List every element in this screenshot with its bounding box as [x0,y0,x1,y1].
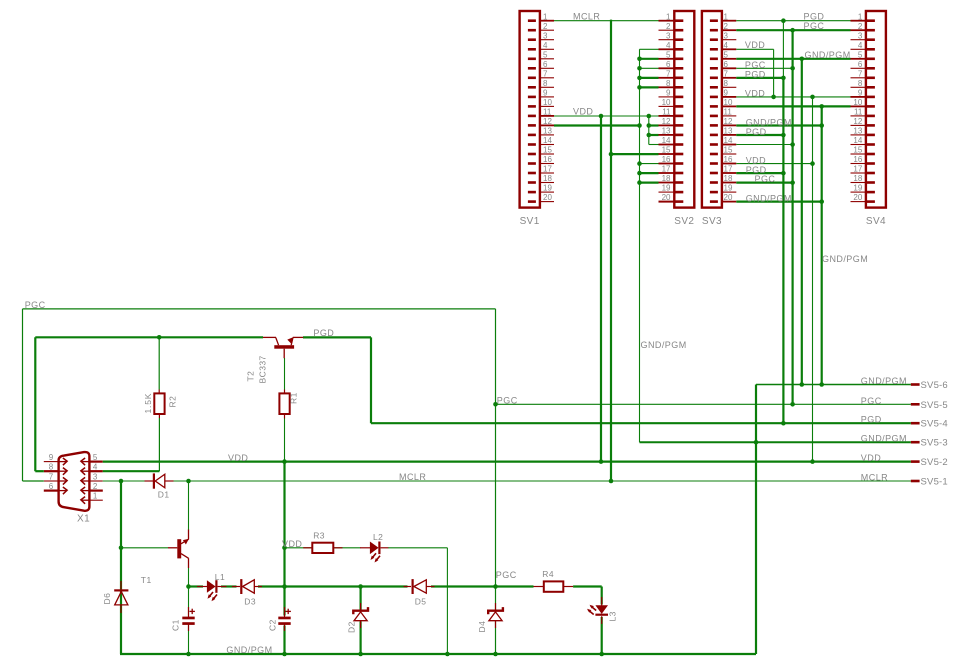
svg-text:T1: T1 [141,575,152,585]
svg-text:12: 12 [543,117,552,126]
svg-text:R2: R2 [168,396,178,408]
svg-text:MCLR: MCLR [861,472,888,482]
svg-text:VDD: VDD [745,88,765,98]
svg-text:16: 16 [724,155,733,164]
wire PGD: SV3 pin17 [736,172,783,174]
svg-text:GND/PGM: GND/PGM [226,645,272,655]
junction PGD pin1 row [781,18,786,23]
junction GND/PGM SV5-6 row [800,382,805,387]
junction row586 at T1 collector / C1 [186,584,191,589]
wire GND/PGM: SV2 pin5 [640,58,659,60]
wire L3 column [601,587,603,605]
connector SV5-6 [911,380,948,391]
wire row586: L1 cathode to D3 [221,585,237,587]
svg-text:GND/PGM: GND/PGM [861,376,907,386]
svg-text:19: 19 [662,184,671,193]
wire VDD: SV3 pin4 over to vertical [736,48,773,50]
junction row586 at C2 column [282,584,287,589]
wire PGC: SV3 pin6 [736,67,792,69]
transistor T2 BC337 [246,337,304,383]
svg-text:D5: D5 [415,596,427,606]
wire T2 collector net: X1 pin8 stub [35,470,44,472]
junction at R2 top [157,335,162,340]
svg-text:9: 9 [666,89,671,98]
svg-text:10: 10 [543,98,552,107]
svg-text:C1: C1 [171,619,181,631]
svg-text:D4: D4 [477,621,487,633]
svg-text:19: 19 [724,184,733,193]
wire PGC: SV3 pin18 [736,182,792,184]
svg-text:1: 1 [666,12,671,21]
junction PGC SV3 pin14 [790,142,795,147]
connector SV4 20-pin header [851,11,887,227]
wire GND/PGM: long vertical to bottom rail [755,385,757,655]
svg-text:VDD: VDD [228,453,248,463]
svg-text:2: 2 [724,22,729,31]
svg-text:12: 12 [853,117,862,126]
wire PGC: SV3 pin2 to SV4 pin2 [736,29,850,31]
wire row586: T1 collector junction to L1 [188,568,190,587]
svg-text:7: 7 [858,69,863,78]
LED L1 [197,572,227,601]
connector SV5-2 [911,457,948,468]
wire row586: R4 right to L3 corner [573,585,602,587]
wire MCLR: D1 cathode to SV5-1 [168,480,911,482]
svg-text:GND/PGM: GND/PGM [861,434,907,444]
junction PGD SV3 pin13 [781,133,786,138]
wire GND/PGM: vertical SV2 side [639,49,641,442]
wire GND/PGM: SV3 pin5 to SV4 pin5 [736,58,850,60]
svg-text:1: 1 [93,492,98,501]
capacitor C1 [171,607,195,631]
wire VDD: SV1 pin11 to SV2 pin11 [554,115,659,117]
svg-text:8: 8 [724,79,729,88]
svg-text:16: 16 [662,155,671,164]
wire R3 to L2 row [285,547,312,549]
junction VDD at SV3 pin16 [810,161,815,166]
svg-text:12: 12 [662,117,671,126]
svg-text:MCLR: MCLR [399,472,426,482]
wire VDD: SV2 pins 11-14 bracket [648,116,650,145]
svg-text:11: 11 [724,108,733,117]
wire GND/PGM: SV2 pin18 [640,182,659,184]
svg-text:2: 2 [543,22,548,31]
wire GND/PGM: SV2 pin17 [640,172,659,174]
diode D6 zener [102,581,128,613]
svg-text:15: 15 [543,146,552,155]
wire PGD: SV5-4 row [371,422,911,424]
wire T2 base to R1 [284,358,286,390]
svg-text:D6: D6 [102,593,112,605]
wire L2 cathode to corner [388,547,447,549]
svg-text:6: 6 [666,60,671,69]
wire C2 column [283,462,285,616]
svg-text:GND/PGM: GND/PGM [822,254,868,264]
svg-text:17: 17 [662,165,671,174]
wire PGC: vertical x792 [791,30,793,404]
wire PGC: SV3 pin14 [736,144,792,146]
resistor R3 [303,531,342,553]
svg-text:8: 8 [858,79,863,88]
svg-text:9: 9 [724,89,729,98]
junction VDD pin9 row [771,95,776,100]
wire MCLR: stub to SV2 pin15 [611,153,659,155]
svg-text:8: 8 [49,463,54,472]
diode D5 [404,579,435,606]
svg-text:PGD: PGD [313,328,334,338]
svg-text:14: 14 [853,136,862,145]
wire D2 column [360,587,362,610]
svg-text:PGD: PGD [861,415,882,425]
wire MCLR: T1 emitter up to MCLR row [188,481,190,530]
wire PGC: top horizontal [23,308,496,310]
svg-text:VDD: VDD [282,539,302,549]
svg-text:3: 3 [858,31,863,40]
svg-text:X1: X1 [77,514,90,525]
svg-text:5: 5 [666,50,671,59]
svg-text:3: 3 [93,472,98,481]
svg-text:1: 1 [724,12,729,21]
svg-text:20: 20 [543,193,552,202]
LED L2 [360,532,388,563]
wire MCLR: SV1 pin1 to SV2 pin1 [554,20,659,22]
svg-text:SV3: SV3 [702,216,722,227]
svg-text:D3: D3 [244,596,256,606]
wire PGD: SV3 pin1 to SV4 pin1 [736,20,850,22]
wire GND/PGM: SV2 pin8 [640,86,659,88]
svg-text:20: 20 [853,193,862,202]
svg-text:13: 13 [853,127,862,136]
wire GND/PGM: SV1 pin12 row [554,124,640,126]
svg-text:17: 17 [853,165,862,174]
svg-text:GND/PGM: GND/PGM [746,117,792,127]
junction GND/PGM SV2 pins 16-18 [637,161,642,166]
wire L2 corner down to rail [446,548,448,654]
connector SV5-1 [911,477,948,488]
svg-text:PGC: PGC [755,174,776,184]
wire T2 collector net: left vertical [34,337,36,471]
diode D4 zener [477,603,503,633]
svg-text:SV5-2: SV5-2 [921,457,948,468]
junction PGC SV5-5 row [493,402,498,407]
wire PGD: T2 emitter to corner [303,336,371,338]
wire GND/PGM: SV2 pin4 [640,48,659,50]
svg-text:7: 7 [49,472,54,481]
svg-text:4: 4 [858,41,863,50]
svg-text:VDD: VDD [745,40,765,50]
svg-text:10: 10 [724,98,733,107]
junction VDD row [599,459,604,464]
junction MCLR at vertical bus [609,479,614,484]
junction PGD SV5-4 row [781,421,786,426]
wire GND/PGM: SV3 pin10 to SV4 pin10 [736,105,850,107]
svg-text:14: 14 [662,136,671,145]
resistor R2 1.5K [143,390,178,419]
svg-text:GND/PGM: GND/PGM [746,194,792,204]
svg-text:R1: R1 [289,392,299,404]
svg-text:BC337: BC337 [258,355,268,383]
svg-text:18: 18 [662,174,671,183]
svg-text:15: 15 [662,146,671,155]
junction GND/PGM at SV1 pin12 row [637,123,642,128]
junction bottom rail [186,652,191,657]
svg-text:16: 16 [853,155,862,164]
svg-text:PGD: PGD [746,127,767,137]
svg-text:1: 1 [543,12,548,21]
svg-text:L3: L3 [608,611,618,621]
junction GND/PGM SV3 pin12 [819,123,824,128]
svg-text:12: 12 [724,117,733,126]
wire GND/PGM: SV2 pin16 [640,163,659,165]
connector SV3 20-pin header [702,11,736,227]
wire VDD: right vertical to SV5-2 row [812,97,814,462]
svg-text:9: 9 [858,89,863,98]
connector SV5-5 [911,400,948,411]
junction MCLR at T1 emitter branch [186,479,191,484]
svg-text:3: 3 [666,31,671,40]
svg-text:PGC: PGC [25,300,46,310]
svg-text:L1: L1 [215,572,225,582]
connector SV5-3 [911,438,948,449]
svg-text:SV2: SV2 [674,216,694,227]
svg-text:SV5-6: SV5-6 [921,380,948,391]
svg-text:20: 20 [724,193,733,202]
svg-text:T2: T2 [246,371,256,382]
svg-text:3: 3 [543,31,548,40]
svg-text:4: 4 [666,41,671,50]
svg-text:7: 7 [543,69,548,78]
svg-text:PGD: PGD [804,11,825,21]
svg-text:R4: R4 [542,569,554,579]
junction MCLR at D6 branch [119,479,124,484]
svg-text:2: 2 [666,22,671,31]
connector SV1 20-pin header [520,11,554,227]
junction GND/PGM SV2 pins 5-8 [637,57,642,62]
svg-text:PGC: PGC [496,570,517,580]
svg-text:17: 17 [543,165,552,174]
LED L3 [587,597,618,624]
wire GND/PGM: bottom rail [120,653,756,655]
svg-text:11: 11 [662,108,671,117]
junction row586 at PGC/D4 column [493,584,498,589]
wire row586: D5 anode to R4 [431,585,534,587]
wire C1 column [188,587,190,616]
junction GND/PGM pin5 row [800,57,805,62]
wire row586: D3 anode to D5 [258,585,408,587]
svg-text:MCLR: MCLR [573,11,600,21]
svg-text:VDD: VDD [746,156,766,166]
wire T2 collector net: row to T2 collector [35,336,263,338]
junction GND/PGM SV5-3 row at long vertical [754,440,759,445]
wire GND/PGM: SV2 pin6 [640,67,659,69]
wire GND/PGM: D6 column from MCLR row [120,481,122,590]
svg-text:1.5K: 1.5K [143,393,153,414]
svg-text:6: 6 [49,482,54,491]
svg-text:GND/PGM: GND/PGM [805,50,851,60]
svg-text:7: 7 [724,69,729,78]
junction GND/PGM T1 base branch [119,546,124,551]
svg-text:5: 5 [724,50,729,59]
svg-text:17: 17 [724,165,733,174]
wire GND/PGM: SV2 pin7 [640,77,659,79]
svg-text:SV5-3: SV5-3 [921,438,948,449]
svg-text:10: 10 [662,98,671,107]
svg-text:PGC: PGC [497,396,518,406]
wire GND/PGM: SV3 pin12 row [736,124,821,126]
wire VDD: vertical from row116 to VDD row [600,116,602,462]
svg-text:2: 2 [858,22,863,31]
svg-text:15: 15 [724,146,733,155]
svg-text:7: 7 [666,69,671,78]
wire PGD: SV3 pin13 [736,134,783,136]
wire VDD: R1 bottom to VDD row [284,419,286,462]
svg-text:5: 5 [858,50,863,59]
svg-text:5: 5 [93,453,98,462]
svg-text:4: 4 [93,463,98,472]
svg-text:6: 6 [724,60,729,69]
wire GND/PGM: SV5-3 row [640,441,911,443]
connector SV2 20-pin header [659,11,695,227]
wire PGC: mid vertical down to bottom [495,309,497,610]
svg-text:6: 6 [543,60,548,69]
svg-text:9: 9 [543,89,548,98]
svg-text:5: 5 [543,50,548,59]
capacitor C2 [268,607,291,631]
svg-text:11: 11 [543,108,552,117]
wire VDD: SV3 pin16 stub [736,163,812,165]
wire MCLR: vertical bus from top to MCLR row [610,20,612,481]
svg-text:19: 19 [853,184,862,193]
svg-text:13: 13 [662,127,671,136]
junction GND/PGM SV3 pin20 [819,199,824,204]
svg-text:SV5-5: SV5-5 [921,400,948,411]
svg-text:R3: R3 [313,531,325,541]
junction C2 at R3 row [282,546,287,551]
junction PGC pin2 row [790,28,795,33]
svg-text:11: 11 [854,108,863,117]
svg-text:14: 14 [543,136,552,145]
wire PGC: SV5-5 row [496,403,911,405]
junction GND/PGM pin10 row [819,104,824,109]
svg-text:9: 9 [49,453,54,462]
svg-text:PGC: PGC [861,396,882,406]
connector X1 SUB-D9 [44,452,103,524]
svg-text:GND/PGM: GND/PGM [641,340,687,350]
wire VDD: SV3 pin9 to SV4 pin9 [736,96,850,98]
svg-text:PGD: PGD [745,69,766,79]
svg-text:4: 4 [724,41,729,50]
wire GND/PGM: SV3 pin20 row [736,201,821,203]
svg-text:L2: L2 [373,532,383,542]
svg-text:PGC: PGC [745,60,766,70]
wire R2 top lead [158,337,160,389]
svg-text:13: 13 [724,127,733,136]
svg-text:14: 14 [724,136,733,145]
wire PGD: SV3 pin7 [736,77,783,79]
svg-text:D1: D1 [158,490,170,500]
resistor R1 [279,390,298,419]
svg-text:13: 13 [543,127,552,136]
svg-text:4: 4 [543,41,548,50]
diode D3 [232,579,262,606]
svg-text:VDD: VDD [861,453,881,463]
svg-text:15: 15 [853,146,862,155]
wire GND/PGM: vertical x801 [801,59,803,385]
svg-text:20: 20 [662,193,671,202]
svg-text:SV5-4: SV5-4 [921,419,948,430]
svg-text:VDD: VDD [573,107,593,117]
wire MCLR: X1 pin3 to D1 anode [103,480,150,482]
svg-text:18: 18 [724,174,733,183]
svg-text:16: 16 [543,155,552,164]
svg-text:18: 18 [543,174,552,183]
junction row586 at D2 [358,584,363,589]
svg-text:1: 1 [858,12,863,21]
wire R2 bottom to X1 pin4 [158,418,160,471]
wire GND/PGM: SV5-6 row [756,384,911,386]
junction VDD bracket pins 11,12,13 [647,114,652,119]
junction MCLR at SV2 pin15 [609,152,614,157]
wire PGD: vertical x371 [370,337,372,423]
svg-text:2: 2 [93,482,98,491]
diode D1 [145,473,174,499]
junction PGC SV3 pin6 [790,66,795,71]
junction PGD SV3 pin7 [781,76,786,81]
svg-text:SV4: SV4 [866,216,886,227]
svg-text:10: 10 [853,98,862,107]
svg-text:PGC: PGC [804,21,825,31]
svg-text:19: 19 [543,184,552,193]
wire PGD: vertical x783 [782,21,784,78]
connector SV5-4 [911,419,948,430]
svg-text:6: 6 [858,60,863,69]
svg-text:SV5-1: SV5-1 [921,477,948,488]
svg-text:8: 8 [666,79,671,88]
diode D2 zener [347,603,369,633]
svg-text:C2: C2 [268,619,278,631]
junction PGD SV3 pin17 [781,171,786,176]
junction PGC SV3 pin18 [790,180,795,185]
svg-text:D2: D2 [347,621,357,633]
svg-text:8: 8 [543,79,548,88]
junction VDD at x601 [599,114,604,119]
svg-text:18: 18 [853,174,862,183]
wire VDD: main row X1 pin5 to SV5-2 [103,461,911,463]
resistor R4 [534,569,574,592]
wire GND/PGM: vertical x821 [821,106,823,384]
svg-text:SV1: SV1 [520,216,540,227]
wire T1 base from D6 column [121,547,168,549]
svg-text:3: 3 [724,31,729,40]
wire PGC: left vertical to X1 pin7 [22,309,24,481]
transistor T1 [141,530,189,585]
